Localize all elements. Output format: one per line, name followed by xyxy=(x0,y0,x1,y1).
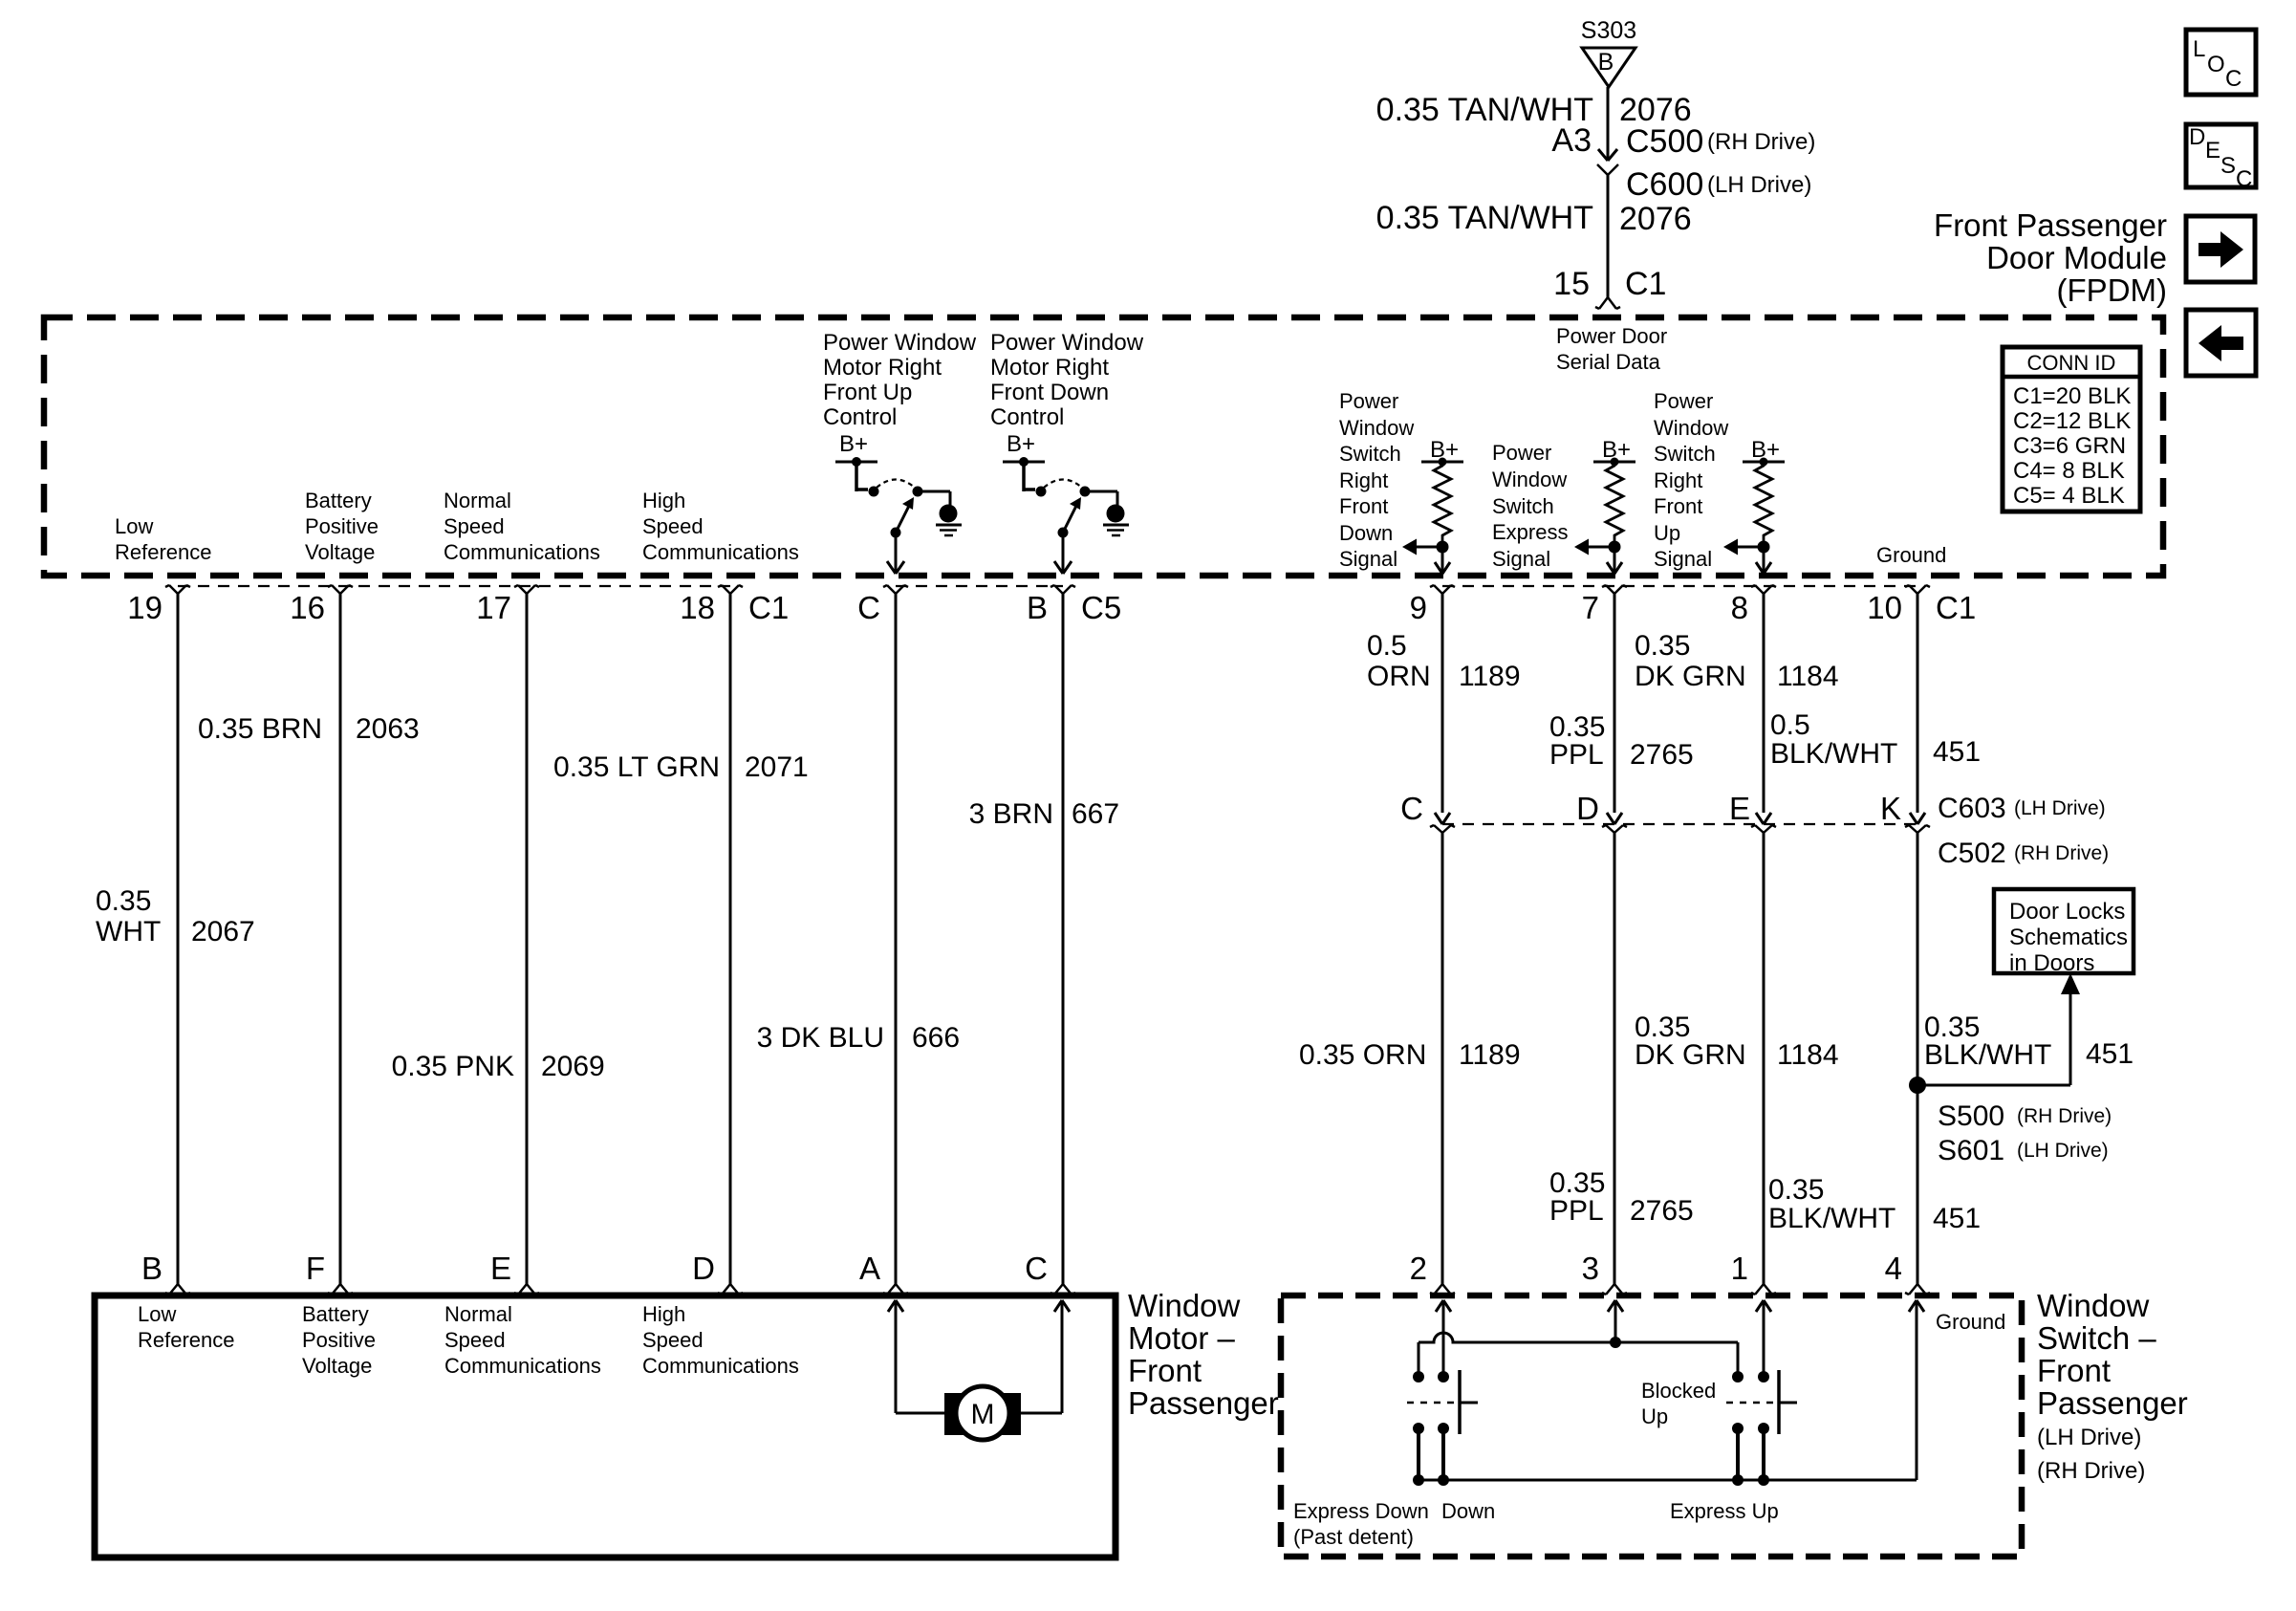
wire to motor xyxy=(896,1412,944,1415)
svg-text:C1=20 BLK: C1=20 BLK xyxy=(2013,383,2131,409)
switch dashed travel arc xyxy=(877,480,915,489)
junction dot at pin 3 wire xyxy=(1610,1337,1621,1348)
junction dot xyxy=(1758,541,1770,554)
actuator bar xyxy=(1777,1370,1781,1434)
B+ terminal bar xyxy=(1421,461,1463,464)
junction dot xyxy=(1437,541,1449,554)
switch wire pin 3 with up arrow xyxy=(1608,1300,1615,1312)
wire pin 10 upper segment (BLK/WHT 451) xyxy=(1917,594,1919,813)
ground wire pin 4 with up arrow xyxy=(1909,1300,1917,1312)
svg-text:0.35 BRN: 0.35 BRN xyxy=(198,713,322,745)
svg-text:DK GRN: DK GRN xyxy=(1635,661,1746,692)
B+ terminal bar xyxy=(835,461,877,464)
svg-text:Express Up: Express Up xyxy=(1670,1499,1779,1523)
connector fork pin 10 xyxy=(1909,585,1917,594)
wire pin B to motor pin C (3 BRN 667) xyxy=(1062,594,1065,1284)
svg-text:O: O xyxy=(2207,52,2225,77)
svg-text:B: B xyxy=(1598,49,1614,76)
svg-text:Power Window: Power Window xyxy=(990,330,1144,356)
switch fixed contact right xyxy=(1080,487,1091,497)
switch wire pin 2 with up arrow xyxy=(1436,1300,1443,1312)
wire pin 3 lower segment (PPL 2765) xyxy=(1614,833,1616,1284)
svg-text:PPL: PPL xyxy=(1549,1195,1604,1227)
connector C1 dashed line (pins 9-10) xyxy=(1442,585,1917,587)
svg-text:(LH Drive): (LH Drive) xyxy=(2014,797,2106,819)
svg-text:Down: Down xyxy=(1339,521,1393,545)
svg-text:C603: C603 xyxy=(1938,793,2006,824)
svg-text:3 DK BLU: 3 DK BLU xyxy=(757,1022,884,1054)
connector fork below C502 xyxy=(1755,825,1764,833)
svg-text:C1: C1 xyxy=(748,590,789,625)
connector fork pin 16 xyxy=(332,585,340,594)
svg-text:0.35 ORN: 0.35 ORN xyxy=(1299,1039,1426,1071)
svg-text:C5= 4 BLK: C5= 4 BLK xyxy=(2013,483,2125,509)
connector C5 dashed line (pins C-B) xyxy=(896,585,1063,587)
svg-text:15: 15 xyxy=(1553,266,1590,302)
svg-text:7: 7 xyxy=(1582,590,1599,625)
signal tap arrow pointing left xyxy=(1417,546,1442,549)
svg-text:Positive: Positive xyxy=(302,1328,376,1352)
svg-text:E: E xyxy=(1729,791,1750,826)
connector C603/C502 dashed line xyxy=(1442,823,1917,825)
connector fork below C502 xyxy=(1606,825,1614,833)
svg-text:Battery: Battery xyxy=(302,1302,369,1326)
svg-text:3: 3 xyxy=(1582,1251,1599,1286)
svg-text:(RH Drive): (RH Drive) xyxy=(2014,842,2109,864)
wire pin 19 to motor pin B (0.35 WHT 2067) xyxy=(177,594,180,1284)
svg-text:Power: Power xyxy=(1492,441,1551,465)
svg-text:18: 18 xyxy=(680,590,715,625)
svg-text:Door Locks: Door Locks xyxy=(2009,899,2125,925)
svg-text:C502: C502 xyxy=(1938,838,2006,869)
contact legs to bottom bus xyxy=(1736,1428,1740,1480)
svg-text:0.5: 0.5 xyxy=(1770,709,1810,741)
svg-text:17: 17 xyxy=(476,590,511,625)
B+ terminal bar xyxy=(1593,461,1635,464)
switch output wire with down arrow to module edge xyxy=(895,533,898,572)
svg-text:Up: Up xyxy=(1641,1404,1668,1428)
svg-text:Motor Right: Motor Right xyxy=(990,355,1109,381)
LOC reference box xyxy=(2186,30,2256,95)
svg-text:PPL: PPL xyxy=(1549,739,1604,771)
Window Switch - Front Passenger dashed box xyxy=(1281,1295,2022,1557)
svg-text:WHT: WHT xyxy=(96,916,161,947)
svg-text:(FPDM): (FPDM) xyxy=(2057,272,2167,308)
svg-text:Right: Right xyxy=(1654,468,1702,492)
svg-text:Power Door: Power Door xyxy=(1556,324,1667,348)
svg-text:Communications: Communications xyxy=(444,1354,601,1378)
svg-text:BLK/WHT: BLK/WHT xyxy=(1768,1203,1895,1234)
connector fork pin 18 xyxy=(722,585,730,594)
right-arrow reference box xyxy=(2186,216,2255,282)
signal tap arrow pointing left xyxy=(1738,546,1764,549)
Door Locks Schematics in Doors box xyxy=(1994,889,2134,973)
bus drop to express-down contact xyxy=(1418,1342,1420,1377)
svg-text:4: 4 xyxy=(1885,1251,1902,1286)
wire from splice to Door Locks schematic arrow xyxy=(1917,1084,2070,1087)
svg-text:BLK/WHT: BLK/WHT xyxy=(1770,738,1897,770)
svg-text:A: A xyxy=(859,1251,880,1286)
svg-text:Speed: Speed xyxy=(444,1328,506,1352)
svg-text:Speed: Speed xyxy=(642,514,704,538)
svg-text:Motor –: Motor – xyxy=(1128,1320,1236,1356)
svg-text:(RH Drive): (RH Drive) xyxy=(1707,129,1815,155)
svg-text:451: 451 xyxy=(2086,1038,2134,1070)
svg-text:0.35: 0.35 xyxy=(1635,630,1690,662)
svg-text:0.35: 0.35 xyxy=(1768,1174,1824,1206)
svg-text:D: D xyxy=(2189,124,2205,150)
wire pin 7 upper segment (PPL 2765) xyxy=(1614,594,1616,813)
svg-text:K: K xyxy=(1880,791,1901,826)
svg-text:C4= 8 BLK: C4= 8 BLK xyxy=(2013,458,2125,484)
connector C1 dashed line (pins 19-18) xyxy=(178,585,730,587)
svg-text:1: 1 xyxy=(1731,1251,1748,1286)
svg-text:0.35 LT GRN: 0.35 LT GRN xyxy=(553,751,720,783)
lower contact dots xyxy=(1732,1423,1744,1434)
svg-text:Front Passenger: Front Passenger xyxy=(1934,207,2167,243)
svg-text:Express Down: Express Down xyxy=(1293,1499,1429,1523)
connector fork pin B xyxy=(1054,585,1063,594)
motor wire pin A with up arrow xyxy=(888,1300,896,1312)
svg-text:Window: Window xyxy=(1128,1288,1241,1323)
svg-text:666: 666 xyxy=(912,1022,960,1054)
lower contact dots xyxy=(1413,1423,1424,1434)
ground symbol xyxy=(1107,505,1125,523)
wire pin 9 upper segment (ORN 1189) xyxy=(1441,594,1444,813)
svg-text:Reference: Reference xyxy=(115,540,212,564)
svg-text:BLK/WHT: BLK/WHT xyxy=(1924,1039,2051,1071)
CONN ID table xyxy=(2003,347,2140,512)
svg-text:Window: Window xyxy=(2037,1288,2150,1323)
svg-text:Front Up: Front Up xyxy=(823,380,912,405)
svg-text:1189: 1189 xyxy=(1459,661,1521,692)
svg-text:0.5: 0.5 xyxy=(1367,630,1407,662)
wire - serial data from inline connector down to FPDM pin 15 xyxy=(1607,175,1610,297)
svg-text:2765: 2765 xyxy=(1630,739,1694,771)
svg-text:B: B xyxy=(1027,590,1048,625)
wire - serial data from S303 down to inline connector xyxy=(1607,87,1610,161)
svg-text:C500: C500 xyxy=(1626,123,1703,160)
switch fixed contact left xyxy=(855,462,858,491)
component pin D fork xyxy=(722,1284,730,1295)
svg-text:S601: S601 xyxy=(1938,1135,2004,1166)
svg-text:451: 451 xyxy=(1933,736,1981,768)
wire pin 16 to motor pin F (0.35 BRN 2063) xyxy=(339,594,342,1284)
splice S500/S601 junction dot xyxy=(1909,1077,1926,1094)
connector fork pin 9 xyxy=(1434,585,1442,594)
svg-text:Normal: Normal xyxy=(444,489,511,512)
svg-text:C: C xyxy=(1400,791,1423,826)
svg-text:Front Down: Front Down xyxy=(990,380,1109,405)
switch dashed travel arc xyxy=(1044,480,1082,489)
svg-text:Control: Control xyxy=(990,404,1064,430)
svg-text:Control: Control xyxy=(823,404,897,430)
svg-text:Down: Down xyxy=(1441,1499,1495,1523)
wire from right contact to ground xyxy=(1085,490,1117,493)
svg-text:Switch: Switch xyxy=(1339,442,1401,466)
svg-text:Voltage: Voltage xyxy=(302,1354,372,1378)
inline connector C500/C600 chevrons xyxy=(1598,149,1608,161)
svg-text:Normal: Normal xyxy=(444,1302,512,1326)
svg-text:S500: S500 xyxy=(1938,1100,2004,1132)
bus drop to blocked-up contact xyxy=(1737,1342,1740,1377)
connector fork pin 7 xyxy=(1606,585,1614,594)
actuator bar xyxy=(1458,1370,1462,1434)
svg-text:Signal: Signal xyxy=(1492,547,1550,571)
svg-text:High: High xyxy=(642,1302,685,1326)
svg-text:Window: Window xyxy=(1339,416,1414,440)
connector fork pin C xyxy=(887,585,896,594)
svg-text:Motor Right: Motor Right xyxy=(823,355,942,381)
svg-text:Front: Front xyxy=(2037,1353,2111,1388)
svg-text:ORN: ORN xyxy=(1367,661,1431,692)
svg-text:2069: 2069 xyxy=(541,1051,605,1082)
svg-text:16: 16 xyxy=(290,590,325,625)
component pin 3 fork xyxy=(1606,1284,1614,1295)
svg-text:in Doors: in Doors xyxy=(2009,950,2094,976)
svg-text:Window: Window xyxy=(1654,416,1728,440)
svg-text:Power: Power xyxy=(1654,389,1713,413)
svg-text:E: E xyxy=(2205,138,2220,163)
svg-text:E: E xyxy=(490,1251,511,1286)
svg-text:(LH Drive): (LH Drive) xyxy=(2017,1140,2109,1162)
svg-text:C: C xyxy=(2225,66,2242,92)
svg-text:3 BRN: 3 BRN xyxy=(969,798,1053,830)
switch internal bus wire with hop over pin 2 wire xyxy=(1419,1333,1738,1342)
component pin C fork xyxy=(1054,1284,1063,1295)
svg-text:Positive: Positive xyxy=(305,514,379,538)
svg-text:C5: C5 xyxy=(1081,590,1121,625)
svg-text:B+: B+ xyxy=(839,431,868,457)
connector fork below C502 xyxy=(1434,825,1442,833)
svg-text:F: F xyxy=(306,1251,325,1286)
upper contact dots xyxy=(1413,1371,1424,1382)
svg-text:2063: 2063 xyxy=(356,713,420,745)
svg-text:Window: Window xyxy=(1492,468,1567,491)
component pin F fork xyxy=(332,1284,340,1295)
svg-text:667: 667 xyxy=(1072,798,1119,830)
svg-text:Front: Front xyxy=(1339,494,1388,518)
wire down to module edge with arrow xyxy=(1614,547,1616,572)
switch fixed contact left xyxy=(1022,462,1026,491)
svg-text:Blocked: Blocked xyxy=(1641,1379,1716,1403)
resistor xyxy=(1434,462,1451,541)
svg-text:(RH Drive): (RH Drive) xyxy=(2017,1105,2112,1127)
svg-text:Door Module: Door Module xyxy=(1986,240,2167,275)
svg-text:Power: Power xyxy=(1339,389,1398,413)
switch fixed contact right xyxy=(913,487,923,497)
svg-text:C1: C1 xyxy=(1625,266,1666,302)
component pin E fork xyxy=(518,1284,527,1295)
splice S303 triangle symbol with B xyxy=(1582,48,1635,87)
svg-text:1184: 1184 xyxy=(1777,1039,1839,1071)
svg-text:High: High xyxy=(642,489,685,512)
FPDM module dashed box xyxy=(44,317,2163,576)
svg-text:Express: Express xyxy=(1492,520,1568,544)
wire pin 8 upper segment (DK GRN 1184) xyxy=(1763,594,1765,813)
svg-text:M: M xyxy=(971,1399,995,1430)
wire pin 2 lower segment (ORN 1189) xyxy=(1441,833,1444,1284)
svg-text:(Past detent): (Past detent) xyxy=(1293,1525,1414,1549)
switch movable contact arm with arrowhead xyxy=(1058,528,1069,538)
signal tap arrow pointing left xyxy=(1589,546,1614,549)
svg-text:0.35: 0.35 xyxy=(96,885,151,917)
svg-text:C: C xyxy=(857,590,880,625)
connector fork pin 17 xyxy=(518,585,527,594)
svg-text:1184: 1184 xyxy=(1777,661,1839,692)
resistor xyxy=(1606,462,1623,541)
svg-text:2071: 2071 xyxy=(745,751,809,783)
svg-text:Front: Front xyxy=(1128,1353,1202,1388)
svg-text:Speed: Speed xyxy=(444,514,505,538)
wire down to module edge with arrow xyxy=(1763,547,1765,572)
connector fork below C502 xyxy=(1909,825,1917,833)
svg-text:Signal: Signal xyxy=(1339,547,1397,571)
svg-text:Reference: Reference xyxy=(138,1328,235,1352)
Window Motor - Front Passenger box xyxy=(95,1295,1116,1557)
svg-text:S: S xyxy=(2220,153,2236,179)
svg-text:Passenger: Passenger xyxy=(2037,1385,2188,1421)
connector fork pin 19 xyxy=(169,585,178,594)
component pin 2 fork xyxy=(1434,1284,1442,1295)
svg-text:Switch: Switch xyxy=(1654,442,1716,466)
wire pin 1 lower segment (DK GRN 1184) xyxy=(1763,833,1765,1284)
svg-text:Speed: Speed xyxy=(642,1328,704,1352)
junction dot xyxy=(1609,541,1621,554)
svg-text:CONN ID: CONN ID xyxy=(2027,351,2116,375)
svg-text:Power Window: Power Window xyxy=(823,330,977,356)
svg-text:(LH Drive): (LH Drive) xyxy=(1707,172,1811,198)
svg-text:Communications: Communications xyxy=(642,540,799,564)
connector fork pin 8 xyxy=(1755,585,1764,594)
resistor xyxy=(1755,462,1772,541)
ground symbol xyxy=(940,505,958,523)
B+ terminal bar xyxy=(1003,461,1045,464)
svg-text:C: C xyxy=(1025,1251,1048,1286)
svg-text:8: 8 xyxy=(1731,590,1748,625)
contact dashed actuation line xyxy=(1726,1402,1774,1404)
switch bottom bus wire to ground pin 4 xyxy=(1419,1479,1917,1482)
svg-text:(LH Drive): (LH Drive) xyxy=(2037,1425,2141,1450)
wire down to module edge with arrow xyxy=(1441,547,1444,572)
svg-text:19: 19 xyxy=(127,590,162,625)
contact legs to bottom bus xyxy=(1417,1428,1420,1480)
svg-text:Up: Up xyxy=(1654,521,1680,545)
inline connector C603/C502 arrows xyxy=(1435,813,1442,824)
svg-text:2: 2 xyxy=(1410,1251,1427,1286)
switch wire pin 1 with up arrow xyxy=(1756,1300,1764,1312)
svg-text:Switch: Switch xyxy=(1492,494,1554,518)
svg-text:9: 9 xyxy=(1410,590,1427,625)
svg-text:Right: Right xyxy=(1339,468,1388,492)
svg-text:DK GRN: DK GRN xyxy=(1635,1039,1746,1071)
svg-text:Low: Low xyxy=(138,1302,176,1326)
svg-text:A3: A3 xyxy=(1551,122,1592,159)
connector fork at FPDM pin 15 xyxy=(1599,297,1608,309)
svg-text:10: 10 xyxy=(1867,590,1902,625)
svg-text:C600: C600 xyxy=(1626,166,1703,203)
svg-text:Communications: Communications xyxy=(642,1354,799,1378)
svg-text:L: L xyxy=(2193,36,2205,62)
svg-text:Communications: Communications xyxy=(444,540,600,564)
svg-text:Signal: Signal xyxy=(1654,547,1712,571)
svg-text:(RH Drive): (RH Drive) xyxy=(2037,1458,2145,1484)
upper contact dots xyxy=(1732,1371,1744,1382)
svg-text:C1: C1 xyxy=(1936,590,1976,625)
svg-text:B: B xyxy=(141,1251,162,1286)
svg-text:2067: 2067 xyxy=(191,916,255,947)
svg-text:Ground: Ground xyxy=(1936,1310,2005,1334)
svg-text:Serial Data: Serial Data xyxy=(1556,350,1661,374)
switch movable contact arm with arrowhead xyxy=(891,528,901,538)
svg-text:D: D xyxy=(1576,791,1599,826)
svg-text:C2=12 BLK: C2=12 BLK xyxy=(2013,408,2131,434)
wire pin 17 to motor pin E (0.35 PNK 2069) xyxy=(526,594,529,1284)
svg-text:Switch –: Switch – xyxy=(2037,1320,2156,1356)
svg-text:C: C xyxy=(2236,166,2252,192)
component pin 4 fork xyxy=(1909,1284,1917,1295)
B+ terminal bar xyxy=(1743,461,1785,464)
svg-text:Voltage: Voltage xyxy=(305,540,375,564)
svg-text:C3=6 GRN: C3=6 GRN xyxy=(2013,433,2126,459)
motor wire pin C with up arrow xyxy=(1054,1300,1062,1312)
wire pin 18 to motor pin D (0.35 LT GRN 2071) xyxy=(729,594,732,1284)
svg-text:Schematics: Schematics xyxy=(2009,925,2128,950)
svg-text:0.35 PNK: 0.35 PNK xyxy=(392,1051,514,1082)
svg-text:S303: S303 xyxy=(1581,17,1636,44)
component pin 1 fork xyxy=(1755,1284,1764,1295)
svg-text:451: 451 xyxy=(1933,1203,1981,1234)
svg-text:B+: B+ xyxy=(1007,431,1035,457)
svg-text:2765: 2765 xyxy=(1630,1195,1694,1227)
svg-text:Battery: Battery xyxy=(305,489,372,512)
svg-text:D: D xyxy=(692,1251,715,1286)
wire from right contact to ground xyxy=(918,490,950,493)
svg-text:Passenger: Passenger xyxy=(1128,1385,1279,1421)
svg-text:2076: 2076 xyxy=(1619,201,1692,237)
DESC reference box xyxy=(2186,124,2256,187)
svg-text:Low: Low xyxy=(115,514,153,538)
left-arrow reference box xyxy=(2186,310,2256,376)
wire pin C to motor pin A (3 DK BLU 666) xyxy=(895,594,898,1284)
svg-text:1189: 1189 xyxy=(1459,1039,1521,1071)
svg-text:Ground: Ground xyxy=(1876,543,1946,567)
svg-text:Front: Front xyxy=(1654,494,1702,518)
svg-text:0.35 TAN/WHT: 0.35 TAN/WHT xyxy=(1376,200,1593,236)
motor M symbol xyxy=(944,1393,1021,1435)
wire pin 4 lower segment (BLK/WHT 451) xyxy=(1917,833,1919,1284)
component pin A fork xyxy=(887,1284,896,1295)
contact dashed actuation line xyxy=(1407,1402,1454,1404)
component pin B fork xyxy=(169,1284,178,1295)
switch output wire with down arrow to module edge xyxy=(1062,533,1065,572)
